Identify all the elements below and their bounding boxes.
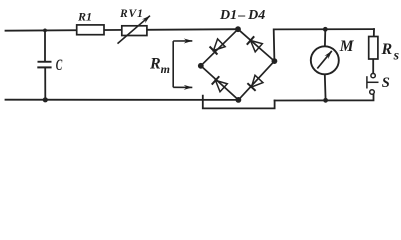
meter M bbox=[311, 46, 339, 74]
junction node: bridge right corner bbox=[272, 58, 278, 64]
junction node: capacitor bottom bbox=[43, 97, 48, 102]
wire bridge edge upper-right bbox=[238, 29, 274, 61]
wire top rail left (input to bridge top corner) bbox=[6, 29, 239, 31]
junction node: capacitor top bbox=[43, 29, 47, 33]
junction node: bridge top corner bbox=[235, 26, 241, 32]
wire bottom rail left (input to bridge bottom corner) bbox=[6, 99, 239, 101]
resistor R1 bbox=[77, 25, 104, 35]
wire bridge edge upper-left bbox=[201, 29, 238, 66]
wire Rs to switch bbox=[372, 59, 374, 73]
diode D3 lower-left bbox=[212, 76, 228, 92]
svg-text:C: C bbox=[56, 57, 63, 74]
wire meter branch bottom bbox=[324, 74, 327, 100]
junction node: meter bottom bbox=[323, 98, 328, 103]
Rm measurement bracket with arrows bbox=[173, 41, 192, 88]
wire capacitor branch upper segment bbox=[44, 30, 46, 60]
junction node: bridge left corner bbox=[198, 63, 204, 69]
wire meter branch top bbox=[324, 29, 326, 46]
diode D4 lower-right bbox=[247, 75, 263, 91]
junction node: bridge bottom corner bbox=[236, 97, 242, 103]
wire Rs branch top bbox=[373, 29, 375, 36]
wire bridge right corner up and top rail right bbox=[274, 29, 374, 61]
diode D1 upper-left bbox=[210, 39, 226, 55]
bridge rectifier D1-D4 diamond bbox=[201, 29, 275, 100]
wire detour under bridge bbox=[203, 96, 275, 109]
svg-text:RV1: RV1 bbox=[119, 8, 144, 20]
wire bridge edge lower-right bbox=[238, 61, 274, 100]
svg-text:S: S bbox=[382, 75, 390, 91]
wire bottom rail right (to switch S) bbox=[275, 95, 374, 101]
junction node: meter top bbox=[323, 27, 328, 32]
wire bridge edge lower-left bbox=[201, 66, 239, 100]
svg-text:Rs: Rs bbox=[381, 41, 400, 63]
capacitor C bbox=[37, 61, 51, 69]
svg-text:R1: R1 bbox=[77, 9, 92, 23]
wire capacitor branch lower segment bbox=[44, 68, 46, 99]
resistor Rs bbox=[369, 37, 378, 60]
svg-text:M: M bbox=[339, 38, 355, 55]
svg-text:D1 – D4: D1 – D4 bbox=[219, 8, 265, 23]
svg-text:Rm: Rm bbox=[149, 56, 170, 77]
switch S bbox=[367, 73, 379, 94]
variable resistor RV1 bbox=[118, 16, 151, 44]
diode D2 upper-right bbox=[247, 36, 263, 52]
